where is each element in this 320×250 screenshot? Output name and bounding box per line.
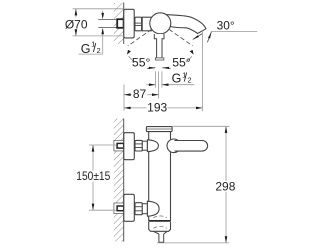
cartridge circle (top view): [150, 13, 171, 34]
swing arrow left: [127, 50, 131, 55]
funnel to aerator: [153, 231, 159, 234]
union nut (top view): [135, 17, 142, 31]
dashed swing line right: [169, 29, 193, 46]
upper union nut: [135, 140, 142, 151]
svg-text:150±15: 150±15: [76, 169, 110, 183]
lever (top view, pointing to viewer): [154, 34, 164, 58]
30 deg arrow at horizontal line: [207, 32, 211, 43]
87 dimension: [123, 85, 125, 111]
lower union nut: [135, 203, 142, 215]
svg-text:30°: 30°: [217, 19, 235, 33]
dia 70 extension lines: [73, 8, 124, 10]
G 1/2 top-left dimension: [102, 11, 104, 18]
wall (top view) hatch: [114, 3, 124, 44]
aerator tube: [159, 234, 164, 242]
wall face line (front view): [123, 119, 125, 242]
lever hub circle: [167, 139, 181, 153]
escutcheon flange (top view): [124, 9, 134, 38]
dashed swing line left: [128, 29, 152, 46]
G 1/2 mid dimension: [155, 71, 157, 87]
wall face line (top view): [123, 3, 125, 45]
swing arc arrow at lever right: [162, 68, 170, 69]
svg-text:G: G: [81, 42, 91, 56]
wall (front view) hatch: [114, 119, 124, 242]
lower escutcheon: [124, 194, 135, 221]
supply pipe: [98, 19, 123, 21]
hidden dashed arc in body bottom: [153, 216, 167, 218]
swing arc arrow at lever left: [147, 68, 155, 69]
dia 70 dimension line: [75, 9, 77, 17]
spout (top view): [166, 15, 206, 34]
svg-text:55°: 55°: [132, 55, 151, 69]
pipe nipple in wall (bold): [117, 19, 123, 28]
svg-text:2: 2: [187, 75, 191, 84]
upper escutcheon: [124, 133, 135, 160]
svg-text:G: G: [172, 71, 182, 85]
upper hub dome: [147, 140, 158, 152]
150 +-15 dimension: [89, 144, 117, 146]
lever bar: [175, 141, 208, 152]
svg-text:Ø70: Ø70: [65, 18, 88, 32]
top cap: [146, 127, 172, 132]
G 1/2 top-left label: [79, 53, 104, 55]
outlet joint (bold): [149, 220, 171, 222]
outlet cup: [149, 222, 171, 232]
30 deg leader line: [211, 31, 257, 33]
upper wall fitting: [114, 140, 124, 151]
body collar (top view): [142, 17, 151, 31]
svg-text:2: 2: [97, 46, 101, 55]
swing arrow right: [190, 50, 194, 55]
298 dimension: [172, 125, 229, 127]
lower hub dome: [147, 201, 159, 216]
svg-text:298: 298: [215, 180, 235, 194]
30 deg arrow on face extension: [193, 34, 202, 40]
body (front view): [148, 132, 150, 221]
svg-text:193: 193: [147, 101, 167, 115]
hidden dashed arc in outlet: [153, 226, 167, 228]
svg-text:87: 87: [133, 87, 147, 101]
lower wall fitting: [114, 203, 124, 214]
193 dimension: [201, 31, 203, 111]
svg-text:55°: 55°: [172, 55, 191, 69]
